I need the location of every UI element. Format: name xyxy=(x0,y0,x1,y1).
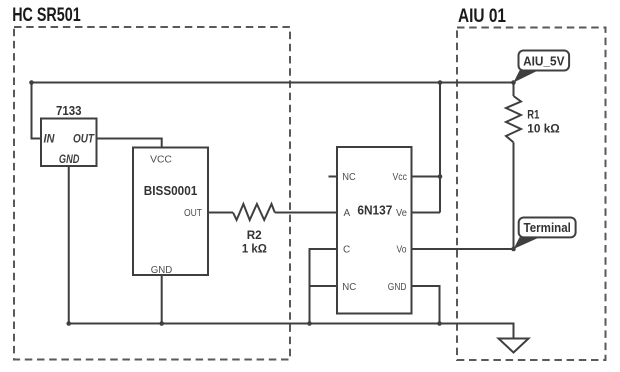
svg-text:GND: GND xyxy=(388,282,407,293)
junction node BISS GND on rail xyxy=(159,321,164,326)
svg-text:OUT: OUT xyxy=(73,132,95,146)
IC U2 BISS0001 body xyxy=(133,148,208,276)
optocoupler U3 6N137 body xyxy=(337,147,412,314)
svg-text:NC: NC xyxy=(342,282,356,293)
svg-text:C: C xyxy=(343,245,350,256)
wire R2 to 6N137 pin A xyxy=(275,212,337,214)
module boundary AIU 01 (dashed box) xyxy=(457,28,606,361)
ground symbol xyxy=(499,339,529,353)
wire 6N137 GND to ground rail xyxy=(412,286,440,324)
junction node Terminal xyxy=(511,247,516,252)
net label Terminal callout xyxy=(514,237,540,249)
wire top supply rail xyxy=(32,82,514,84)
junction node rail/x440 xyxy=(438,80,443,85)
svg-text:VCC: VCC xyxy=(150,155,172,166)
junction node AIU_5V xyxy=(511,80,516,85)
wire R1 to Terminal node xyxy=(513,142,515,249)
wire 6N137 Vo to Terminal node xyxy=(412,248,514,250)
resistor R1 xyxy=(506,96,521,142)
svg-text:HC SR501: HC SR501 xyxy=(12,5,81,26)
svg-text:A: A xyxy=(344,208,351,219)
svg-text:IN: IN xyxy=(44,132,55,146)
wire 7133 GND to ground rail xyxy=(68,166,70,324)
svg-text:Vcc: Vcc xyxy=(393,172,408,183)
svg-text:1 kΩ: 1 kΩ xyxy=(242,242,267,256)
svg-text:6N137: 6N137 xyxy=(357,203,392,218)
svg-text:Ve: Ve xyxy=(396,208,407,219)
junction node 7133 GND on rail xyxy=(66,321,71,326)
wire from rail down to 7133 IN xyxy=(32,83,42,139)
wire 6N137 Ve xyxy=(412,212,441,214)
wire 6N137 Vcc to supply xyxy=(412,176,441,178)
net label AIU_5V callout xyxy=(514,71,539,83)
wire NC stub (6N137 top-left) xyxy=(329,176,338,178)
module boundary HC SR501 (dashed box) xyxy=(14,27,290,360)
wire bottom ground rail xyxy=(69,324,514,339)
svg-text:AIU_5V: AIU_5V xyxy=(523,55,565,69)
svg-text:7133: 7133 xyxy=(56,103,82,118)
junction node 6N137 GND on rail xyxy=(437,321,442,326)
wire 7133 OUT to BISS0001 VCC xyxy=(97,139,162,148)
wire 6N137 C to ground rail xyxy=(310,249,338,324)
wire 6N137 NC (bottom-left) xyxy=(310,285,338,287)
svg-text:BISS0001: BISS0001 xyxy=(144,183,198,198)
regulator U1 7133 body xyxy=(41,119,97,167)
svg-text:GND: GND xyxy=(151,265,173,276)
svg-text:Vo: Vo xyxy=(397,245,407,256)
svg-text:GND: GND xyxy=(59,152,80,166)
svg-text:R1: R1 xyxy=(527,108,539,122)
junction node at top-left corner xyxy=(29,80,34,85)
junction node C-net on rail xyxy=(307,321,312,326)
wire AIU_5V node to R1 xyxy=(513,83,515,97)
svg-text:AIU 01: AIU 01 xyxy=(458,6,506,27)
wire supply drop at x=440 xyxy=(439,83,441,213)
svg-text:R2: R2 xyxy=(247,228,262,242)
svg-text:OUT: OUT xyxy=(184,208,202,219)
resistor R2 xyxy=(233,204,275,220)
svg-text:NC: NC xyxy=(342,172,356,183)
junction node Vcc tap xyxy=(438,174,443,179)
svg-text:Terminal: Terminal xyxy=(524,221,571,235)
svg-text:10 kΩ: 10 kΩ xyxy=(527,122,560,136)
wire BISS0001 OUT to R2 xyxy=(208,212,233,214)
wire BISS0001 GND to ground rail xyxy=(161,275,163,324)
